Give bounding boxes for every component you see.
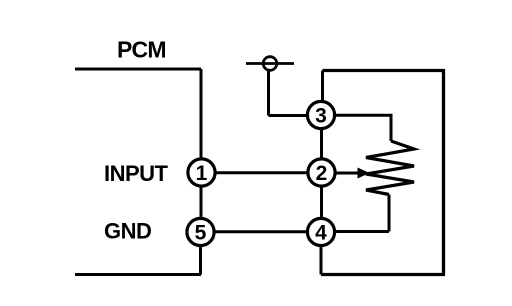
svg-text:1: 1 bbox=[196, 162, 208, 185]
wire pin2 to pin4 bbox=[320, 187, 323, 218]
svg-text:3: 3 bbox=[315, 105, 327, 128]
wire terminal to pin 3 bbox=[269, 114, 307, 117]
pin 2 bbox=[308, 159, 335, 186]
wire pin3 up to loop bbox=[321, 71, 324, 102]
wire PCM right edge upper (to pin 1) bbox=[200, 69, 203, 158]
wire PCM bottom edge bbox=[75, 273, 201, 276]
wire pin3 to pin2 bbox=[320, 129, 323, 159]
svg-text:5: 5 bbox=[195, 222, 207, 245]
wire pin1 to pin2 bbox=[215, 171, 308, 174]
wire loop right side bbox=[442, 69, 445, 275]
pin 5 bbox=[187, 218, 214, 245]
pin 1 bbox=[188, 159, 215, 186]
wire wiper from pin2 bbox=[336, 172, 360, 175]
svg-text:PCM: PCM bbox=[117, 37, 166, 63]
wire pin5 to pin4 bbox=[214, 230, 307, 233]
pin 4 bbox=[307, 218, 334, 245]
svg-text:GND: GND bbox=[104, 219, 151, 244]
wire pin3 to resistor top bbox=[336, 115, 392, 141]
wire terminal horizontal bar bbox=[246, 62, 294, 65]
wire pin4 down to loop bottom bbox=[320, 246, 323, 275]
wire loop top bbox=[323, 69, 444, 72]
resistor R1 zigzag bbox=[366, 141, 414, 195]
svg-text:4: 4 bbox=[315, 222, 327, 245]
wire resistor bottom lead bbox=[388, 195, 391, 232]
svg-text:2: 2 bbox=[316, 162, 328, 185]
svg-text:INPUT: INPUT bbox=[104, 161, 169, 186]
wiper arrowhead bbox=[358, 168, 370, 179]
wire loop bottom bbox=[321, 273, 445, 276]
wire pin4 to resistor bottom bbox=[336, 230, 390, 233]
wire terminal down bbox=[267, 70, 270, 116]
wire pin5 down to PCM bottom edge bbox=[199, 246, 202, 275]
terminal T1 circle bbox=[263, 57, 277, 71]
wire PCM top edge bbox=[75, 68, 201, 71]
wire pin1 to pin5 bbox=[200, 186, 203, 219]
pin 3 bbox=[307, 101, 334, 128]
